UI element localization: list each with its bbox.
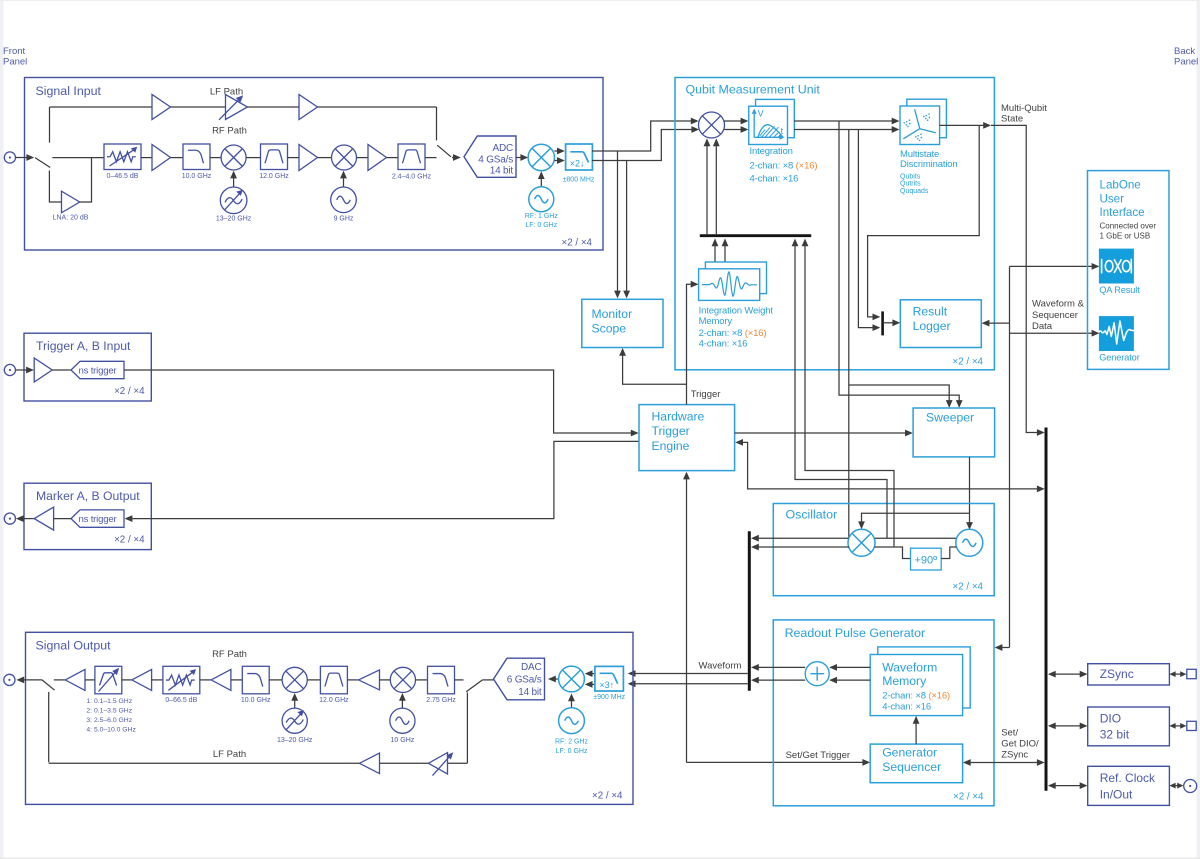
wire to QA Result icon: [1010, 263, 1100, 270]
svg-text:4 GSa/s: 4 GSa/s: [478, 154, 513, 165]
svg-text:LF: 0 GHz: LF: 0 GHz: [525, 222, 557, 229]
svg-text:ns trigger: ns trigger: [79, 514, 118, 525]
wire trigger branch to Monitor Scope: [619, 348, 686, 384]
low-pass filter F4 10.0 GHz (output): [242, 666, 269, 694]
result merge junction bar: [881, 311, 884, 335]
svg-text:6 GSa/s: 6 GSa/s: [507, 675, 542, 686]
svg-text:Logger: Logger: [913, 319, 951, 333]
switch S1 blade: [35, 158, 50, 168]
svg-text:12.0 GHz: 12.0 GHz: [319, 697, 349, 704]
LF path wire segment 4: [318, 106, 437, 108]
waveform distribution bus: [748, 531, 751, 691]
wire tap integration line Q to result merge: [858, 130, 876, 328]
svg-text:Trigger: Trigger: [652, 424, 690, 438]
mixer M2: [332, 145, 357, 170]
wire adder to waveform bus line b: [751, 677, 805, 684]
svg-text:Trigger A, B Input: Trigger A, B Input: [36, 339, 131, 353]
wire mixer M8 to DAC: [548, 676, 559, 683]
wire M7 to filter F6: [416, 679, 428, 681]
wire F4 to mixer M6: [269, 679, 282, 681]
left page edge strip: [0, 0, 4, 859]
wire attenuator to amp A1: [141, 157, 152, 159]
LF path wire segment 3: [248, 106, 300, 108]
wire bus to DIO: [1048, 723, 1088, 730]
svg-text:DIO: DIO: [1100, 712, 1121, 726]
svg-text:Result: Result: [913, 304, 948, 318]
output port J4: [4, 674, 15, 685]
switch S3 blade: [42, 680, 55, 690]
svg-text:Front: Front: [3, 46, 26, 57]
trigger vertical wire HTE to IWM: [687, 281, 699, 405]
svg-text:State: State: [1001, 113, 1023, 124]
wire amp A7 to ns trigger: [52, 369, 71, 371]
Waveform and Sequencer data vertical: [1009, 266, 1011, 647]
svg-text:12.0 GHz: 12.0 GHz: [259, 173, 289, 180]
svg-text:Waveform: Waveform: [882, 660, 937, 674]
wire A9 to band selector: [85, 679, 95, 681]
set/get trigger wire to Generator Sequencer: [687, 759, 871, 766]
wire port J1 to switch S1: [16, 154, 35, 161]
monitor scope tap line Q: [623, 161, 630, 299]
svg-text:4-chan: ×16: 4-chan: ×16: [882, 701, 931, 712]
svg-text:2-chan: ×8 (×16): 2-chan: ×8 (×16): [882, 690, 950, 701]
wire LO1 to mixer M1: [230, 171, 237, 187]
svg-text:14 bit: 14 bit: [518, 687, 542, 698]
svg-text:10 GHz: 10 GHz: [391, 737, 415, 744]
ADC converter U1 4 GSa/s 14 bit: [464, 136, 516, 177]
LF path wire segment 1: [50, 106, 153, 108]
svg-text:Data: Data: [1032, 321, 1053, 332]
svg-text:×2↓: ×2↓: [570, 158, 585, 168]
LabOne User Interface block boundary: [1088, 171, 1170, 370]
svg-text:0–46.5 dB: 0–46.5 dB: [107, 173, 139, 180]
wire M2 to amp A3: [357, 157, 369, 159]
wire Waveform Memory to adder line a: [829, 664, 870, 671]
svg-text:Integration Weight: Integration Weight: [699, 305, 774, 316]
svg-text:4: 5.0–10.0 GHz: 4: 5.0–10.0 GHz: [86, 726, 136, 733]
wire M3 to decimator lower: [554, 157, 564, 164]
wire band selector to amp A10: [122, 679, 132, 681]
wire LO4 to mixer M6: [291, 693, 298, 708]
monitor scope tap line I: [614, 151, 621, 298]
LF path wire segment 2: [171, 106, 226, 108]
wire mixer M4 to Integration line I: [724, 118, 748, 125]
mixer M1: [221, 145, 246, 170]
band-pass filter F2 12.0 GHz: [261, 144, 288, 170]
low-pass filter F1 10.0 GHz: [183, 144, 210, 170]
svg-text:Qubits: Qubits: [900, 173, 921, 180]
svg-text:0–66.5 dB: 0–66.5 dB: [165, 697, 197, 704]
wire A2 to mixer M2: [318, 157, 332, 159]
Integration block U2: [749, 99, 795, 144]
Readout Pulse Generator block boundary: [773, 620, 994, 806]
wire F3 to switch S2: [425, 157, 437, 159]
switch S4 blade: [466, 680, 482, 692]
svg-text:×2 / ×4: ×2 / ×4: [953, 792, 984, 803]
variable band filter (output ranges): [95, 666, 122, 694]
wire bus to Ref Clock: [1048, 782, 1088, 789]
svg-text:Panel: Panel: [1174, 57, 1198, 68]
oscillator quadrature mixer M5: [848, 529, 875, 556]
wire into Readout Pulse Generator: [995, 644, 1010, 651]
signal line Q (ADC output B): [592, 130, 695, 161]
svg-text:3: 2.5–6.0 GHz: 3: 2.5–6.0 GHz: [86, 717, 132, 724]
svg-text:Panel: Panel: [3, 57, 27, 68]
ZSync block: [1088, 664, 1170, 685]
output mixer M7: [390, 667, 415, 692]
ZSync connector: [1187, 669, 1196, 678]
output amplifier A12: [359, 670, 380, 690]
arrowhead into Multistate line Q: [892, 126, 900, 133]
wire DIO to connector: [1169, 723, 1186, 729]
svg-text:9 GHz: 9 GHz: [334, 216, 354, 223]
local oscillator LO4 13-20 GHz (output): [282, 708, 307, 733]
switch S2 upper contact stub from LF path: [436, 107, 438, 140]
svg-text:Generator: Generator: [882, 746, 937, 760]
wire M3 to decimator upper: [554, 148, 564, 155]
wire RF line to amp A9: [54, 679, 65, 681]
svg-text:ADC: ADC: [492, 143, 513, 154]
amplifier A3: [368, 145, 387, 171]
svg-text:10.0 GHz: 10.0 GHz: [241, 697, 271, 704]
LF path amplifier A4: [152, 95, 171, 120]
svg-text:10.0 GHz: 10.0 GHz: [182, 173, 212, 180]
oscillator quadrature B to QMU bar: [802, 239, 894, 548]
wire NCO to mixer M5 (in-phase): [875, 537, 956, 539]
wire LO5 to mixer M7: [399, 693, 406, 708]
LF path return wire middle: [380, 762, 429, 764]
digital oscillator LO3 RF 1 GHz LF 0 GHz: [529, 187, 554, 212]
output mixer M6: [282, 667, 307, 692]
svg-text:4-chan: ×16: 4-chan: ×16: [750, 174, 799, 185]
switch S2 blade: [437, 145, 451, 157]
wire bus to ZSync: [1048, 671, 1088, 678]
input port J1: [4, 152, 15, 163]
svg-text:Back: Back: [1174, 46, 1195, 57]
svg-text:RF: 1 GHz: RF: 1 GHz: [525, 213, 559, 220]
svg-text:Get DIO/: Get DIO/: [1001, 739, 1039, 750]
svg-text:Multi-Qubit: Multi-Qubit: [1001, 103, 1047, 114]
amplifier LNA: [62, 191, 80, 213]
wire branch to Sweeper from tap: [849, 385, 949, 404]
wire Waveform Memory to adder line b: [829, 677, 870, 684]
marker wire from Hardware Trigger Engine: [125, 441, 639, 522]
svg-text:Sequencer: Sequencer: [1032, 310, 1078, 321]
svg-text:Scope: Scope: [592, 322, 627, 336]
svg-text:Qubit Measurement Unit: Qubit Measurement Unit: [686, 83, 821, 97]
wire IWM to bar line a: [712, 238, 719, 269]
wire switch S4 to DAC: [483, 679, 494, 681]
svg-text:Engine: Engine: [652, 439, 690, 453]
svg-text:Generator: Generator: [1099, 353, 1140, 363]
svg-text:Integration: Integration: [750, 146, 793, 157]
oscillator sin output to waveform bus: [751, 544, 849, 551]
LF path variable gain amplifier A5: [226, 95, 248, 120]
svg-text:DAC: DAC: [521, 662, 542, 673]
svg-text:LNA: 20 dB: LNA: 20 dB: [53, 215, 89, 222]
top page edge line: [0, 0, 1200, 1]
DIO block: [1088, 707, 1170, 746]
backplane bus: [1045, 428, 1048, 791]
wire LNA to RF line junction: [80, 158, 92, 202]
LF path amplifier A6: [299, 95, 318, 120]
wire port J2 to amp: [16, 367, 34, 374]
svg-text:4-chan: ×16: 4-chan: ×16: [699, 338, 748, 349]
svg-text:LabOne: LabOne: [1100, 179, 1141, 192]
svg-text:+90º: +90º: [914, 555, 937, 567]
local oscillator LO5 10 GHz (output): [390, 708, 415, 733]
wire F6 to switch S4: [455, 679, 464, 681]
Integration Weight Memory icon: [702, 272, 757, 296]
svg-text:LF Path: LF Path: [213, 749, 246, 760]
trigger input port J2: [4, 364, 15, 375]
wire ADC to DDC mixer M3: [516, 154, 528, 161]
svg-text:Sweeper: Sweeper: [926, 411, 974, 425]
svg-text:±900 MHz: ±900 MHz: [593, 694, 625, 701]
svg-text:ZSync: ZSync: [1100, 667, 1134, 681]
trigger input wire to Hardware Trigger Engine: [124, 370, 639, 436]
arrowhead into QMU mixer line I: [691, 118, 699, 125]
signal line I (ADC output A): [592, 121, 695, 151]
wire ns trigger to amp A8: [54, 518, 71, 520]
variable attenuator 0-46.5 dB: [104, 144, 141, 170]
wire digital LO6 to mixer M8: [568, 693, 575, 708]
right page edge strip: [1197, 0, 1200, 859]
wire Sweeper to oscillator branch: [969, 457, 971, 513]
Monitor Scope block: [582, 299, 663, 347]
switch S3 LF stub: [48, 692, 50, 762]
svg-text:2.4–4.0 GHz: 2.4–4.0 GHz: [392, 173, 432, 180]
LF path variable amplifier A13: [428, 753, 447, 774]
svg-text:Qutrits: Qutrits: [900, 181, 921, 188]
switch S1 upper contact stub to LF path: [49, 107, 51, 143]
svg-text:Memory: Memory: [882, 674, 927, 688]
svg-text:2.75 GHz: 2.75 GHz: [426, 697, 456, 704]
wire HTE to Sweeper: [735, 430, 913, 437]
ns trigger block (input): [71, 361, 124, 378]
output amplifier A10: [132, 669, 152, 690]
wire bar to mixer M4 line b: [713, 138, 720, 234]
wire result merge to Result Logger: [883, 319, 901, 326]
DAC converter U5 6 GSa/s 14 bit: [494, 658, 545, 700]
svg-text:Sequencer: Sequencer: [882, 760, 941, 774]
Hardware Trigger Engine block: [639, 405, 735, 471]
wire Integration to Multistate line I: [794, 120, 896, 122]
digital oscillator LO6 RF 2 GHz LF 0 GHz: [559, 708, 585, 734]
svg-text:×2 / ×4: ×2 / ×4: [561, 237, 592, 248]
svg-text:×2 / ×4: ×2 / ×4: [952, 357, 983, 368]
wire ZSync to connector: [1169, 671, 1186, 677]
amplifier A2: [299, 145, 318, 171]
low-pass filter F6 2.75 GHz: [428, 666, 455, 694]
ns trigger block (marker): [71, 510, 124, 527]
wire Ref Clock to connector: [1169, 783, 1183, 789]
wire Generator Sequencer to backplane bus: [963, 759, 1045, 766]
arrowhead into result merge upper: [873, 314, 881, 321]
digital mixer M3: [528, 144, 554, 170]
interpolator x3 block: [595, 666, 624, 691]
svg-text:2-chan: ×8 (×16): 2-chan: ×8 (×16): [750, 160, 818, 171]
svg-text:Readout Pulse Generator: Readout Pulse Generator: [785, 626, 926, 640]
Ref Clock block: [1088, 766, 1170, 805]
adder block (waveform summer): [805, 662, 829, 686]
band-pass filter F3 2.4-4.0 GHz: [398, 144, 425, 170]
wire mixer M5 lower to +90 block: [875, 547, 911, 559]
svg-text:RF: 2 GHz: RF: 2 GHz: [555, 739, 589, 746]
switch S4 LF stub: [466, 692, 468, 763]
svg-text:2: 0.1–3.5 GHz: 2: 0.1–3.5 GHz: [86, 707, 132, 714]
waveform wire to upconverter line b: [628, 680, 748, 687]
wire branch into oscillator mixer: [858, 513, 969, 529]
svg-text:×2 / ×4: ×2 / ×4: [592, 791, 623, 802]
svg-text:1 GbE or USB: 1 GbE or USB: [1100, 231, 1151, 240]
wire A1 to filter F1: [171, 157, 184, 159]
wire +90 block to NCO: [941, 547, 956, 559]
arrowhead Multi-Qubit State into bus: [1037, 429, 1045, 436]
svg-text:13–20 GHz: 13–20 GHz: [277, 737, 313, 744]
arrowhead into Multistate line I: [892, 118, 900, 125]
svg-text:13–20 GHz: 13–20 GHz: [216, 216, 252, 223]
svg-text:Ququads: Ququads: [900, 188, 929, 195]
wire interpolator to mixer M8 line b: [585, 681, 595, 688]
local oscillator LO1 13-20 GHz: [220, 187, 247, 214]
svg-text:In/Out: In/Out: [1100, 787, 1133, 801]
Sweeper block: [913, 408, 995, 457]
wire tap integration line I to Sweeper: [839, 121, 959, 404]
svg-text:1: 0.1–1.5 GHz: 1: 0.1–1.5 GHz: [86, 698, 132, 705]
Signal Input block boundary: [25, 78, 604, 251]
wire F2 to amp A2: [288, 157, 300, 159]
svg-text:QA Result: QA Result: [1099, 285, 1140, 295]
marker output buffer A8: [34, 507, 53, 530]
oscillator quadrature A to QMU bar: [792, 239, 887, 539]
LF path output amplifier A14: [359, 753, 379, 774]
output amplifier A11: [211, 669, 231, 690]
svg-text:×2 / ×4: ×2 / ×4: [114, 386, 145, 397]
wire M6 to filter F5: [307, 679, 320, 681]
wire F5 to amp A12: [347, 679, 358, 681]
+90 degree phase shifter block: [911, 548, 942, 570]
svg-text:±800 MHz: ±800 MHz: [563, 177, 595, 184]
svg-text:Waveform &: Waveform &: [1032, 299, 1085, 310]
oscillator cos output to waveform bus: [751, 535, 849, 542]
svg-text:Set/: Set/: [1001, 728, 1018, 739]
Integration Weight Memory block U4: [699, 262, 767, 300]
trigger input amplifier A7: [34, 358, 52, 382]
wire RF line to attenuator: [52, 157, 104, 159]
svg-text:Trigger: Trigger: [691, 389, 721, 400]
QMU down-conversion mixer M4: [699, 112, 725, 138]
svg-text:RF Path: RF Path: [212, 126, 247, 137]
Multi-Qubit State output wire: [940, 122, 991, 129]
Signal Output block boundary: [26, 632, 634, 804]
bottom page edge line: [0, 858, 1200, 859]
output amplifier A9: [65, 669, 85, 690]
set/get trigger vertical from HTE: [683, 472, 690, 763]
svg-text:User: User: [1100, 192, 1125, 205]
svg-text:Discrimination: Discrimination: [900, 159, 958, 170]
svg-text:Waveform: Waveform: [699, 661, 742, 672]
band-pass filter F5 12.0 GHz (output): [320, 666, 347, 694]
arrowhead into result merge lower: [873, 324, 881, 331]
wire Generator Sequencer to Waveform Memory: [913, 716, 920, 744]
svg-text:Set/Get Trigger: Set/Get Trigger: [786, 750, 850, 761]
local oscillator LO2 9 GHz: [331, 187, 357, 213]
svg-text:32 bit: 32 bit: [1100, 728, 1130, 742]
wire branch into oscillator sine: [966, 513, 973, 530]
svg-text:Interface: Interface: [1100, 206, 1145, 219]
Qubit Measurement Unit block boundary: [675, 78, 994, 370]
wire tap integration line Q down to oscillator mixer: [848, 130, 850, 539]
svg-text:Memory: Memory: [699, 316, 733, 327]
wire M1 to filter F2: [246, 157, 260, 159]
wire A11 to filter F4: [231, 679, 242, 681]
LF path return wire right: [448, 762, 468, 764]
marker output port J3: [4, 513, 15, 524]
wire A10 to attenuator: [152, 679, 163, 681]
Result Logger block: [900, 300, 981, 348]
svg-text:Connected over: Connected over: [1100, 221, 1157, 230]
svg-text:ns trigger: ns trigger: [79, 365, 118, 376]
wire to Generator icon: [1010, 330, 1100, 337]
QMU weight/LO distribution bar: [700, 234, 811, 237]
amplifier A1: [152, 145, 171, 171]
svg-text:Hardware: Hardware: [652, 410, 705, 424]
svg-text:14 bit: 14 bit: [490, 166, 514, 177]
wire F1 to mixer M1: [210, 157, 221, 159]
wire LabOne data line to Result Logger: [982, 320, 1010, 327]
wire switch S2 to ADC: [452, 154, 461, 161]
svg-text:Ref. Clock: Ref. Clock: [1100, 771, 1156, 785]
wire bar to mixer M4 line a: [704, 138, 711, 234]
wire attenuator to amp A11: [200, 679, 211, 681]
svg-text:×2 / ×4: ×2 / ×4: [952, 582, 983, 593]
wire interpolator to mixer M8 line a: [585, 670, 595, 677]
Marker A,B Output block boundary: [24, 483, 151, 549]
wire mixer M4 to Integration line Q: [724, 126, 748, 133]
switch S1 lower contact stub to LNA: [49, 171, 61, 203]
Integration block icon: [754, 112, 783, 138]
Generator Sequencer block: [870, 744, 962, 783]
wire backplane bus to HTE: [735, 439, 1044, 492]
digital upconversion mixer M8: [559, 666, 585, 692]
svg-text:Oscillator: Oscillator: [786, 508, 838, 522]
wire LO2 to mixer M2: [340, 171, 347, 187]
wire marker amp to port J3: [16, 515, 34, 522]
numeric oscillator NCO: [956, 529, 983, 556]
Multistate Discrimination block U3: [900, 99, 946, 144]
Trigger A,B Input block boundary: [24, 333, 151, 401]
wire tap multistate output to result merge: [868, 125, 980, 317]
wire Integration to Multistate line Q: [794, 129, 896, 131]
wire switch S3 to port J4: [16, 677, 42, 684]
arrowhead into Sweeper top right: [956, 400, 963, 408]
Multi-Qubit State wire to backplane bus: [991, 125, 1041, 432]
Oscillator block boundary: [773, 504, 994, 596]
svg-text:Monitor: Monitor: [592, 307, 633, 321]
waveform wire to upconverter line a: [628, 670, 748, 677]
arrowhead into Sweeper top left: [946, 400, 953, 408]
Ref Clock connector: [1184, 780, 1197, 793]
variable attenuator 0-66.5 dB: [163, 666, 200, 694]
Waveform Memory block U6: [870, 647, 970, 716]
svg-text:ZSync: ZSync: [1001, 750, 1028, 761]
wire digital LO3 to mixer M3: [538, 171, 545, 186]
svg-text:×3↑: ×3↑: [599, 680, 614, 690]
wire IWM to bar line b: [722, 238, 729, 269]
Multistate Discrimination icon: [903, 109, 936, 139]
svg-text:×2 / ×4: ×2 / ×4: [114, 534, 145, 545]
